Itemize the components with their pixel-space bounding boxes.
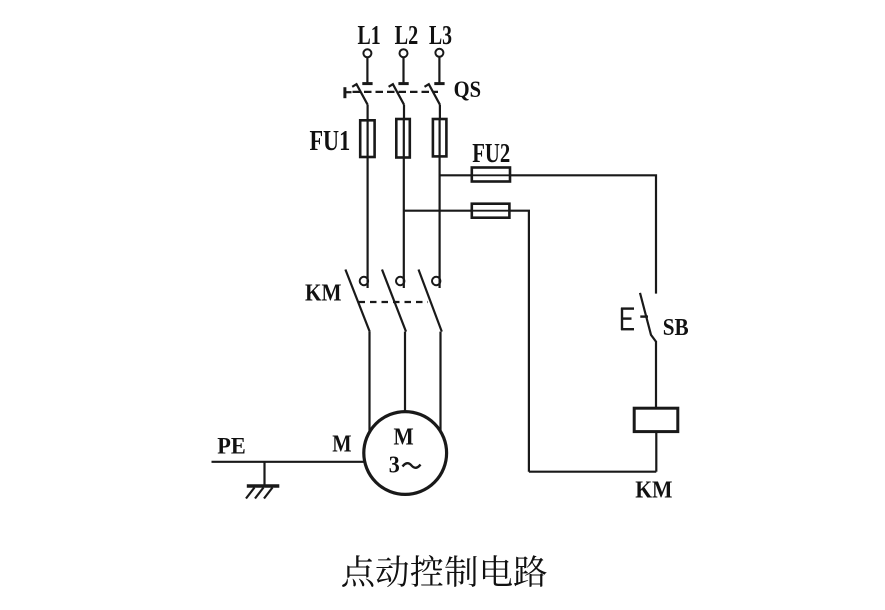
fuse FU2b inner line bbox=[472, 210, 510, 212]
ground hatch 1 bbox=[246, 488, 255, 499]
motor M circle bbox=[364, 412, 447, 495]
coil KM body bbox=[634, 408, 678, 431]
svg-text:3: 3 bbox=[389, 452, 400, 479]
fuse FU1 phase1 body bbox=[360, 120, 374, 157]
fuse FU1 phase2 wire through bbox=[403, 119, 405, 288]
svg-text:FU1: FU1 bbox=[310, 126, 351, 157]
switch QS pole 1 blade bbox=[352, 84, 368, 105]
switch QS pole 3 fixed contact bbox=[434, 82, 444, 85]
label SB bbox=[663, 314, 689, 341]
pushbutton SB actuator E bbox=[621, 308, 634, 330]
svg-text:KM: KM bbox=[305, 280, 342, 307]
label FU1 bbox=[310, 126, 351, 157]
wire coil to bottom bbox=[655, 432, 657, 472]
ground bar bbox=[247, 484, 279, 487]
wire SB to coil bbox=[655, 341, 657, 408]
terminal circle L1 bbox=[363, 49, 371, 57]
wire QS to FU1 phase3 bbox=[439, 105, 441, 119]
svg-text:L3: L3 bbox=[429, 20, 452, 50]
label PE bbox=[217, 433, 246, 459]
switch QS linkage dashed line bbox=[353, 91, 439, 93]
node L2 bbox=[395, 20, 419, 50]
switch QS handle bar bbox=[343, 87, 346, 98]
svg-text:PE: PE bbox=[217, 433, 246, 459]
wire bottom control bbox=[529, 471, 656, 473]
label KM (contacts) bbox=[305, 280, 342, 307]
wire L3 tap to FU2a bbox=[439, 174, 472, 176]
node L3 bbox=[429, 20, 452, 50]
fuse FU1 phase3 body bbox=[433, 119, 447, 156]
label FU2 bbox=[472, 137, 510, 168]
contactor KM pole 2 blade bbox=[382, 270, 406, 332]
title 点动控制电路 bbox=[342, 555, 547, 587]
fuse FU1 phase1 wire through bbox=[367, 120, 369, 288]
wire KM to motor phase1 bbox=[368, 332, 370, 434]
contactor KM pole 3 fixed contact circle bbox=[432, 277, 440, 285]
contactor KM linkage dashed line bbox=[359, 301, 429, 303]
pushbutton SB actuator link dash bbox=[640, 315, 648, 317]
switch QS handle link bbox=[345, 91, 352, 93]
wire FU2b to left control rail bbox=[509, 211, 529, 472]
label KM (coil) bbox=[635, 477, 672, 504]
switch QS pole 3 blade bbox=[425, 84, 441, 105]
svg-text:SB: SB bbox=[663, 314, 689, 341]
svg-text:M: M bbox=[394, 424, 414, 451]
fuse FU1 phase2 body bbox=[396, 119, 410, 158]
contactor KM pole 3 blade bbox=[419, 270, 442, 332]
fuse FU2a inner line bbox=[472, 174, 510, 176]
wire L3 stub bbox=[438, 57, 440, 83]
svg-text:QS: QS bbox=[454, 77, 481, 102]
switch QS pole 1 fixed contact bbox=[362, 82, 372, 85]
contactor KM pole 1 fixed contact circle bbox=[360, 277, 368, 285]
node L1 bbox=[358, 20, 381, 50]
wire L2 stub bbox=[402, 57, 404, 82]
svg-text:M: M bbox=[332, 430, 351, 457]
pushbutton SB blade bbox=[640, 293, 656, 342]
svg-text:KM: KM bbox=[635, 477, 672, 504]
svg-text:FU2: FU2 bbox=[472, 137, 510, 168]
ground hatch 3 bbox=[264, 488, 273, 499]
label QS bbox=[454, 77, 481, 102]
switch QS pole 2 fixed contact bbox=[398, 82, 408, 85]
wire QS to FU1 phase2 bbox=[403, 105, 405, 119]
terminal circle L3 bbox=[435, 49, 443, 57]
ground stem bbox=[263, 462, 265, 485]
label M inside motor bbox=[394, 424, 414, 451]
contactor KM pole 1 blade bbox=[345, 270, 369, 332]
fuse FU1 phase3 wire through bbox=[439, 119, 441, 288]
svg-text:L2: L2 bbox=[395, 20, 419, 50]
wire FU2a to right rail bbox=[510, 175, 656, 293]
wire KM to motor phase2 bbox=[404, 332, 406, 412]
terminal circle L2 bbox=[400, 49, 408, 57]
wire L2 tap to FU2b bbox=[404, 210, 472, 212]
wire PE to motor bbox=[212, 461, 365, 463]
switch QS pole 2 blade bbox=[389, 84, 405, 105]
svg-text:L1: L1 bbox=[358, 20, 381, 50]
fuse FU2a body bbox=[472, 168, 510, 182]
ground hatch 2 bbox=[255, 488, 264, 499]
wire KM to motor phase3 bbox=[439, 332, 441, 432]
wire QS to FU1 phase1 bbox=[367, 105, 369, 120]
label 3~ inside motor bbox=[389, 452, 421, 479]
label M (motor terminal) bbox=[332, 430, 351, 457]
contactor KM pole 2 fixed contact circle bbox=[396, 277, 404, 285]
wire L1 stub bbox=[366, 58, 368, 83]
fuse FU2b body bbox=[472, 204, 510, 218]
